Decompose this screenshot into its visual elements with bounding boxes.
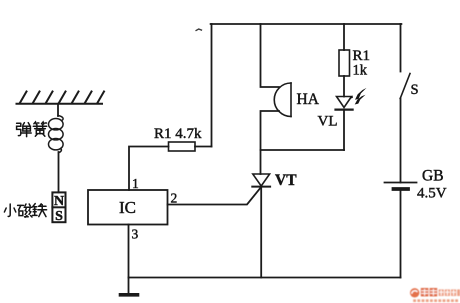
wire: buzzer bottom to junction bbox=[261, 111, 280, 174]
wire: top rail bbox=[211, 23, 402, 25]
svg-text:R1 4.7k: R1 4.7k bbox=[154, 126, 202, 142]
svg-text:2: 2 bbox=[171, 191, 178, 206]
wire: resistor to LED bbox=[343, 76, 345, 97]
label 弹簧 (spring) drawn strokes bbox=[17, 122, 47, 137]
scan artifact dash bbox=[196, 29, 203, 31]
wire: buzzer column top bbox=[261, 24, 280, 87]
wire: junction to LED column bbox=[261, 149, 345, 151]
svg-text:S: S bbox=[55, 209, 63, 224]
resistor R1 1k body bbox=[339, 50, 350, 76]
svg-text:N: N bbox=[54, 194, 64, 209]
wire: VT cathode down bbox=[260, 187, 262, 278]
wire: pin1 riser bbox=[129, 147, 169, 191]
svg-text:R1: R1 bbox=[353, 48, 371, 64]
svg-text:1: 1 bbox=[132, 176, 139, 191]
wire: switch to battery bbox=[400, 99, 402, 183]
switch S arm bbox=[400, 74, 410, 99]
wire: bottom rail bbox=[129, 277, 401, 279]
battery GB plates bbox=[385, 182, 417, 184]
wire: left column up bbox=[211, 24, 213, 147]
IC box U1 bbox=[88, 190, 168, 225]
svg-text:1k: 1k bbox=[353, 63, 368, 79]
spring coil bbox=[49, 116, 64, 153]
wire: resistor to left column bbox=[195, 146, 212, 148]
ground bbox=[128, 278, 130, 294]
svg-text:IC: IC bbox=[119, 198, 136, 217]
svg-text:VT: VT bbox=[275, 172, 297, 189]
wire: pin2 to thyristor gate bbox=[168, 187, 262, 205]
wire ceiling to spring bbox=[57, 104, 59, 116]
svg-text:VL: VL bbox=[318, 114, 338, 130]
svg-text:HA: HA bbox=[297, 91, 320, 108]
ceiling mount bbox=[17, 92, 105, 104]
wire: battery to bottom rail bbox=[400, 189, 402, 278]
wire: LED column from top rail bbox=[343, 24, 345, 50]
thyristor VT bbox=[252, 174, 270, 187]
label 小磁铁 (small magnet) drawn strokes bbox=[4, 204, 46, 218]
magnet N/S box bbox=[52, 192, 65, 222]
svg-text:GB: GB bbox=[422, 168, 444, 185]
resistor R1 4.7k body bbox=[169, 142, 196, 151]
LED VL bbox=[336, 97, 353, 110]
wire spring to magnet bbox=[58, 152, 60, 192]
buzzer HA bbox=[274, 83, 291, 117]
wire: LED down to junction bbox=[343, 110, 345, 150]
LED light arrows bbox=[350, 88, 366, 105]
svg-text:S: S bbox=[411, 82, 419, 98]
svg-text:3: 3 bbox=[132, 227, 139, 242]
wire: pin3 down bbox=[128, 225, 130, 278]
svg-text:4.5V: 4.5V bbox=[417, 186, 447, 202]
wire: right column to switch bbox=[400, 24, 402, 72]
